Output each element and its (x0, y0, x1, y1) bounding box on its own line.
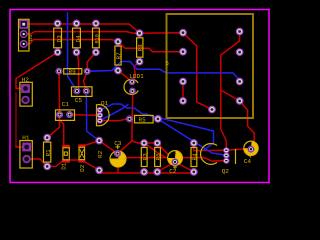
svg-text:C5: C5 (75, 97, 83, 104)
svg-text:5: 5 (165, 60, 169, 67)
svg-text:R7: R7 (116, 52, 123, 60)
svg-text:D1: D1 (61, 162, 68, 170)
svg-text:C4: C4 (244, 158, 252, 165)
svg-text:R1: R1 (45, 149, 52, 157)
svg-text:Q1: Q1 (101, 100, 109, 107)
svg-text:R5: R5 (139, 116, 147, 123)
svg-text:H2: H2 (22, 76, 30, 83)
svg-text:R2: R2 (97, 150, 104, 158)
svg-text:D5: D5 (28, 35, 34, 41)
svg-text:R8: R8 (137, 44, 144, 52)
svg-text:C2: C2 (169, 168, 177, 175)
svg-text:LED1: LED1 (129, 73, 144, 80)
svg-text:R4: R4 (192, 153, 199, 161)
svg-text:D4: D4 (75, 35, 82, 43)
svg-text:C3: C3 (114, 140, 122, 147)
svg-text:H1: H1 (22, 135, 30, 142)
svg-text:R6: R6 (155, 153, 162, 161)
svg-text:C1: C1 (62, 101, 70, 108)
svg-text:R9: R9 (69, 69, 77, 76)
svg-text:Q2: Q2 (222, 168, 230, 175)
svg-text:R10: R10 (95, 34, 101, 43)
svg-text:D2: D2 (79, 164, 86, 172)
svg-text:R3: R3 (142, 153, 149, 161)
svg-text:D3: D3 (56, 35, 63, 43)
